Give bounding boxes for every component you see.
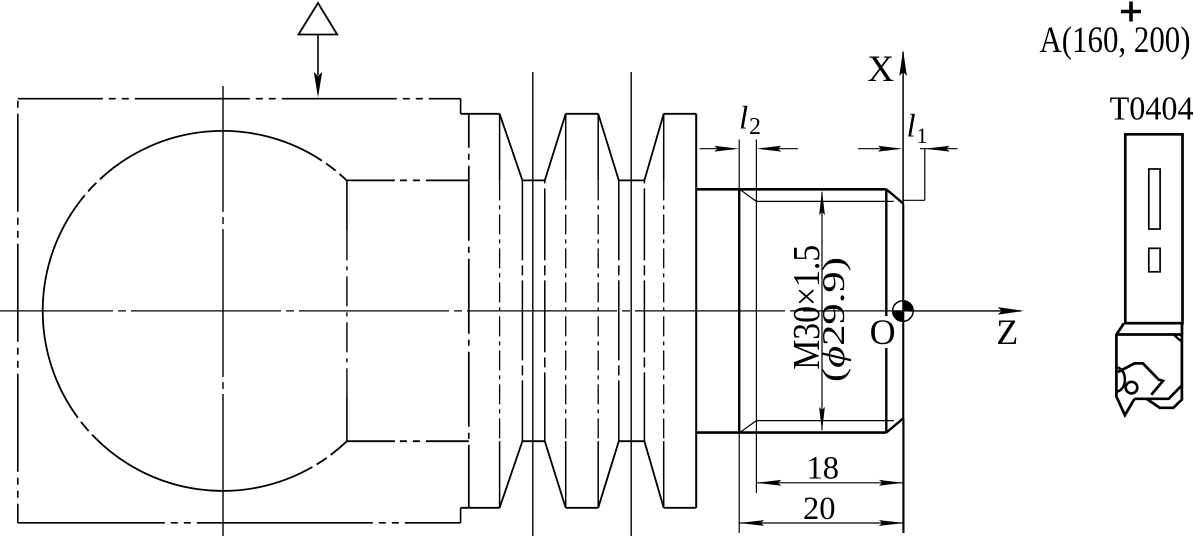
hidden cone edge vertical at R3 left corner [663,114,665,181]
hidden cone edge vertical at R2 right corner [597,114,599,181]
dimension 18 line with arrows [756,482,904,484]
tool left edge arc notch [1116,368,1125,392]
cylinder bottom line [347,440,469,442]
sphere-cylinder junction vertical [346,181,348,231]
thread diameter dimension vertical line [821,192,823,430]
ridge R3 top flat [664,113,697,115]
phi dim arrow up [819,190,825,215]
groove G1 tall centerline [532,72,534,536]
groove G2 top: slants and bottom [598,114,664,181]
Z axis line [908,310,1021,312]
triangle stem wire [317,35,319,76]
X axis arrowhead [899,50,907,76]
ridge R2 top flat [566,113,599,115]
end chamfer slant bottom [886,418,903,432]
hidden cone edge vertical at R1 right corner [499,114,501,181]
chuck step bottom right [460,508,462,523]
groove G2 bottom-corner verticals [618,180,620,441]
start point triangle symbol [299,3,338,35]
groove G2 tall centerline [630,72,632,536]
chuck step top right [460,99,462,114]
groove G1 top: slants and bottom [500,114,566,181]
thread crest top line (major dia, thick) [696,188,886,191]
tool head top-right chamfer mark [1174,335,1182,342]
svg-text:A(160, 200): A(160, 200) [1040,19,1191,60]
tool head right edge upper stub [1181,323,1184,334]
chuck phantom outline top line [18,98,461,100]
thread root top line (minor dia, thin) [756,200,893,202]
svg-text:O: O [870,312,896,352]
l1 right extension bracket [924,149,926,201]
sphere vertical centerline [222,86,224,536]
tool screw circle [1126,382,1138,394]
tool head outline [1116,323,1134,415]
ridge section right face [695,114,697,508]
ridge R3 bottom flat [664,507,697,509]
dimension 20 line with arrows [739,522,904,524]
ridge R2 bottom flat [566,507,599,509]
end face line [902,204,904,419]
svg-text:20: 20 [803,491,836,527]
origin marker at O [893,301,914,322]
svg-text:l: l [907,108,916,144]
sphere silhouette arc [43,131,347,491]
chuck right face phantom vertical [468,114,470,508]
svg-text:T0404: T0404 [1110,90,1194,127]
ridge R1 bottom flat [461,507,500,509]
groove G1 bottom-corner verticals [521,180,523,441]
svg-text:(ϕ29.9): (ϕ29.9) [815,257,851,382]
chuck phantom outline left line [17,99,19,523]
thread root bottom line (minor dia, thin) [756,420,893,422]
extension line at thread end (for l2 and 20) [738,140,740,190]
tool shank slot 2 [1149,248,1160,271]
phi dim arrow down [819,407,825,432]
extension line below end face (for 18 and 20) [903,418,905,533]
chamfer edge circle line (thick) [885,189,887,316]
thread runout slant bottom [740,421,757,433]
point A cross marker [1121,2,1141,22]
svg-text:18: 18 [807,450,840,486]
hidden cone edge vertical at R2 left corner [565,114,567,181]
svg-text:1: 1 [917,123,928,148]
cylinder top line [347,179,469,181]
groove G1 bottom: slants and top [500,441,566,508]
part horizontal centerline (Z axis line) [0,310,908,312]
svg-text:2: 2 [749,114,761,140]
full-thread end line (thick) [738,189,740,432]
Z axis arrowhead [998,307,1024,315]
triangle arrowhead [314,72,322,98]
dimension l1: shafts and arrows [858,148,898,150]
tool shank slot 1 [1149,169,1160,229]
svg-text:l: l [739,101,748,137]
thread runout slant top [740,189,757,201]
groove G2 bottom: slants and top [598,441,664,508]
tool shank [1125,134,1182,323]
tool clamp outline [1118,363,1163,394]
svg-text:Z: Z [996,312,1018,352]
extension line at root start (for l2 and 18) [755,140,757,494]
X axis line [902,52,904,533]
thread crest bottom line (major dia, thick) [696,431,886,434]
svg-text:X: X [867,49,894,90]
tool insert bottom edge [1135,385,1182,399]
end chamfer slant top [886,189,903,203]
ridge R1 top flat [461,113,500,115]
dimension l2: shafts and arrows [700,148,735,150]
chuck phantom outline bottom line [18,522,461,524]
